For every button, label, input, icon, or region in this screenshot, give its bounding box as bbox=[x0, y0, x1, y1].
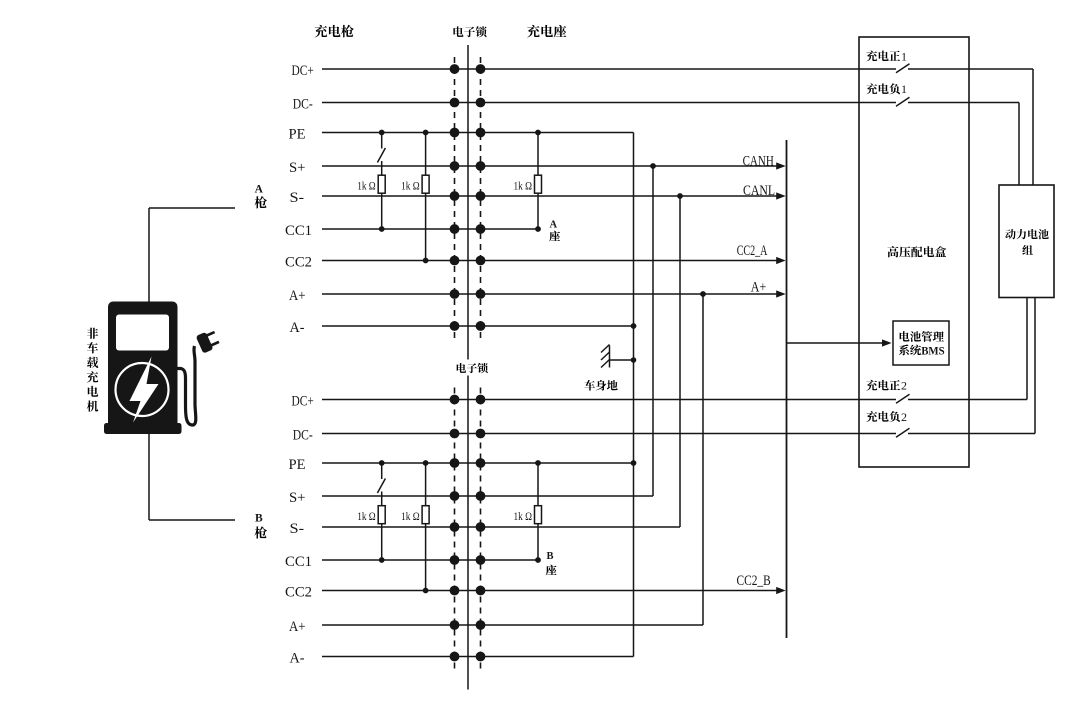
svg-text:2: 2 bbox=[901, 379, 907, 393]
svg-text:CC1: CC1 bbox=[285, 223, 312, 239]
svg-text:B: B bbox=[546, 551, 553, 562]
svg-text:1: 1 bbox=[901, 82, 907, 96]
svg-text:A+: A+ bbox=[289, 288, 306, 304]
svg-text:1k Ω: 1k Ω bbox=[357, 179, 376, 193]
svg-text:A-: A- bbox=[290, 320, 305, 336]
svg-text:CC2: CC2 bbox=[285, 584, 312, 600]
svg-text:1k Ω: 1k Ω bbox=[514, 509, 533, 523]
svg-text:DC-: DC- bbox=[293, 427, 313, 443]
svg-text:CANH: CANH bbox=[743, 153, 774, 169]
svg-text:BMS: BMS bbox=[921, 345, 945, 357]
svg-text:DC+: DC+ bbox=[292, 393, 314, 409]
svg-text:S-: S- bbox=[290, 521, 305, 537]
svg-text:B: B bbox=[255, 512, 263, 524]
svg-text:CANL: CANL bbox=[743, 183, 775, 199]
svg-text:CC2_A: CC2_A bbox=[737, 243, 768, 259]
svg-text:CC2_B: CC2_B bbox=[737, 573, 771, 589]
svg-text:A: A bbox=[550, 220, 558, 231]
svg-text:A+: A+ bbox=[289, 619, 306, 635]
svg-text:A: A bbox=[255, 183, 264, 195]
svg-text:1k Ω: 1k Ω bbox=[401, 509, 420, 523]
svg-text:PE: PE bbox=[289, 126, 306, 142]
svg-text:PE: PE bbox=[289, 457, 306, 473]
svg-text:1k Ω: 1k Ω bbox=[401, 179, 420, 193]
svg-text:1: 1 bbox=[901, 49, 907, 63]
svg-text:DC-: DC- bbox=[293, 96, 313, 112]
svg-text:DC+: DC+ bbox=[292, 63, 314, 79]
svg-text:S+: S+ bbox=[289, 160, 306, 176]
svg-text:2: 2 bbox=[901, 410, 907, 424]
svg-text:1k Ω: 1k Ω bbox=[514, 179, 533, 193]
svg-text:S+: S+ bbox=[289, 490, 306, 506]
svg-text:S-: S- bbox=[290, 190, 305, 206]
svg-text:CC1: CC1 bbox=[285, 554, 312, 570]
svg-text:A+: A+ bbox=[751, 279, 766, 295]
svg-text:1k Ω: 1k Ω bbox=[357, 509, 376, 523]
svg-text:CC2: CC2 bbox=[285, 254, 312, 270]
svg-text:A-: A- bbox=[290, 650, 305, 666]
